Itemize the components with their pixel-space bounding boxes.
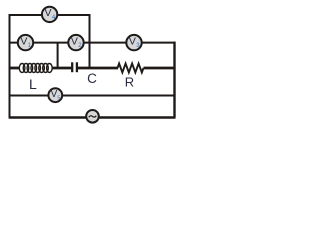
wire: main line from capacitor to resistor [78,67,118,70]
AC source [86,110,99,123]
svg-text:V: V [44,7,51,19]
voltmeter V1 [18,35,33,50]
wire: V5 row [9,95,176,97]
voltmeter V4 [42,7,57,22]
svg-text:V: V [71,35,78,47]
wire: main line from rail to inductor [9,67,20,70]
inductor L coil [19,64,52,73]
wire: top row (V4 branch) [9,14,91,16]
capacitor C right plate [76,62,78,72]
node junction dot at middle vertical [88,41,91,44]
voltmeter V2 [68,35,83,50]
wire: left rail [9,14,11,118]
svg-text:V: V [20,35,27,47]
wire: main line from inductor to capacitor [52,67,71,70]
voltmeter V5 [48,88,62,102]
svg-text:C: C [87,71,97,86]
wire: bottom row with source [9,116,176,118]
wire: voltmeter row V1 V2 V3 [9,42,176,44]
svg-text:V: V [129,35,136,47]
svg-text:5: 5 [57,96,60,102]
wire: main line from resistor to right rail [144,67,176,70]
wire: middle vertical from top corner to main line [89,14,91,68]
wire: right rail [173,42,175,118]
capacitor C left plate [71,62,73,72]
svg-text:L: L [29,76,37,92]
svg-text:R: R [125,75,134,90]
voltmeter V3 [126,35,141,50]
resistor R zigzag [118,64,144,73]
wire: junction vertical between L and C [57,43,59,68]
